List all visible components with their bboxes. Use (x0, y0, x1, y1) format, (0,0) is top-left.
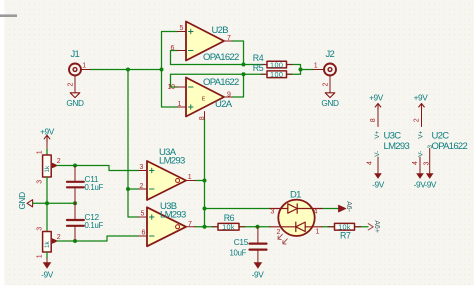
wire R4 node to R4 (244, 64, 268, 66)
svg-text:GND: GND (66, 98, 84, 108)
svg-text:-9V: -9V (424, 179, 437, 189)
svg-text:-9V: -9V (252, 270, 265, 280)
svg-text:10: 10 (168, 84, 176, 91)
wire R5 node to R5 (244, 73, 268, 75)
svg-text:V+: V+ (417, 131, 424, 139)
connector J2 (313, 49, 336, 93)
svg-text:3: 3 (271, 209, 275, 216)
op-amp U2C power unit (OPA1622) (412, 110, 468, 173)
svg-text:100: 100 (270, 70, 283, 79)
op-amp U2A (OPA1622) (168, 77, 240, 120)
svg-text:2: 2 (414, 118, 421, 122)
svg-text:U2B: U2B (212, 25, 229, 36)
wire U3B output (195, 226, 205, 228)
svg-text:OPA1622: OPA1622 (203, 52, 239, 63)
svg-text:+9V: +9V (40, 126, 55, 136)
wire C15 node to D1 pin2 (258, 226, 271, 228)
wire RV1 pin3 down to GND row (46, 177, 48, 203)
svg-text:LM293: LM293 (160, 210, 186, 221)
svg-text:R6: R6 (224, 213, 235, 223)
svg-text:8: 8 (199, 116, 206, 120)
wire vertical to U2B pin5 and U2A pin1 (162, 32, 178, 108)
svg-text:-9V: -9V (41, 270, 54, 280)
wire U3A output (195, 180, 205, 182)
power -9V (U2C pin 3) (424, 173, 437, 189)
svg-text:+9V: +9V (369, 92, 384, 102)
resistor R5 (100) (253, 63, 292, 79)
svg-text:10k: 10k (222, 223, 235, 232)
wire RV2 wiper to junction (57, 240, 75, 242)
label A6- (global, filled arrow) (339, 201, 352, 212)
svg-text:5: 5 (141, 211, 145, 218)
svg-text:3: 3 (423, 162, 430, 166)
wire GND row (33, 202, 75, 204)
resistor R7 (10k) (328, 223, 361, 241)
svg-text:100: 100 (270, 60, 283, 69)
power -9V (U2C pin V-) (414, 173, 427, 189)
svg-text:-9V: -9V (372, 179, 385, 189)
svg-text:J1: J1 (71, 49, 80, 60)
svg-text:R7: R7 (340, 231, 351, 241)
potentiometer RV1 (37, 150, 61, 184)
svg-text:LM293: LM293 (384, 141, 410, 152)
svg-text:LM293: LM293 (159, 155, 185, 166)
svg-text:2: 2 (57, 158, 61, 165)
svg-text:2: 2 (277, 229, 281, 236)
junction node J1 net (126, 68, 130, 72)
svg-text:U2C: U2C (432, 130, 450, 141)
svg-text:7: 7 (188, 221, 192, 228)
junction at U3A pin2 (126, 187, 130, 191)
junction R4 node (242, 63, 246, 67)
svg-text:1: 1 (37, 150, 44, 154)
svg-text:8: 8 (370, 118, 377, 122)
wire U2B output to R4 node (232, 41, 244, 65)
svg-text:J2: J2 (326, 49, 335, 60)
power +9V (U3C) (369, 92, 384, 110)
svg-text:3: 3 (140, 164, 144, 171)
svg-text:10uF: 10uF (230, 248, 247, 257)
power +9V (left) (40, 126, 55, 149)
svg-text:1k: 1k (44, 165, 51, 173)
svg-text:3: 3 (427, 145, 434, 149)
svg-text:C15: C15 (234, 237, 249, 247)
wire D1 pin4 to label A6- (322, 208, 339, 210)
svg-text:R5: R5 (253, 63, 264, 73)
junction C15 node (256, 225, 260, 229)
wire U2A pin8 down to comparator outputs (204, 119, 206, 227)
wire wiper row to U3A pin3 (75, 166, 139, 171)
wire J1 to junction (90, 69, 128, 71)
comparator U3B (LM293) (139, 201, 196, 246)
svg-text:2: 2 (57, 234, 61, 241)
connector J1 (68, 49, 90, 93)
svg-text:V+: V+ (374, 131, 381, 139)
svg-text:A6+: A6+ (373, 220, 380, 232)
wire R7 to label A6+ (355, 226, 369, 228)
wire C12 row to U3B pin6 (75, 236, 139, 241)
svg-text:V-: V- (374, 151, 381, 157)
wire junction to opamp column (128, 69, 162, 71)
wire vertical J1 net down to comparators (128, 70, 139, 218)
wire R4 to J2 column (287, 65, 301, 75)
capacitor C12 (67, 203, 103, 241)
svg-text:5: 5 (180, 25, 184, 32)
wire D1 pin1 to R7 (322, 226, 335, 228)
wire U3A pin2 (128, 188, 139, 190)
junction U3B output / R6 (203, 225, 207, 229)
diode D1 (dual, in package circle) (270, 189, 322, 244)
capacitor C15 (10uF) (230, 227, 267, 262)
svg-text:9: 9 (227, 92, 231, 99)
svg-text:OPA1622: OPA1622 (203, 77, 239, 88)
label A6+ (open arrow) (368, 220, 380, 232)
junction (73, 239, 77, 243)
svg-text:1k: 1k (44, 240, 51, 248)
comparator U3A (LM293) (139, 147, 196, 200)
svg-text:0.1uF: 0.1uF (85, 221, 104, 230)
svg-text:1: 1 (178, 101, 182, 108)
svg-text:1: 1 (314, 63, 318, 70)
svg-text:E: E (202, 97, 206, 103)
ground GND (J2) (321, 93, 339, 108)
ground GND (J1) (66, 93, 84, 108)
wire to J2 pin1 (301, 69, 314, 71)
wire to D1 pin3 (205, 208, 271, 210)
svg-text:6: 6 (142, 230, 146, 237)
resistor R4 (100) (253, 53, 292, 70)
junction (45, 201, 49, 205)
svg-text:2: 2 (140, 183, 144, 190)
svg-text:0.1uF: 0.1uF (85, 183, 104, 192)
potentiometer RV2 (37, 227, 61, 259)
svg-text:1: 1 (188, 174, 192, 181)
power +9V (U2C) (414, 92, 429, 110)
junction U3A output (203, 179, 207, 183)
wire U2B feedback to pin6 (171, 51, 244, 65)
wire R6 left (205, 226, 219, 228)
wire GND row to RV2 pin1 (46, 203, 48, 231)
op-amp U2B (OPA1622) (171, 22, 240, 63)
ground GND (left, rotated) (17, 192, 33, 210)
junction (73, 164, 77, 168)
svg-text:1: 1 (37, 254, 44, 258)
svg-text:1: 1 (82, 63, 86, 70)
svg-text:6: 6 (171, 45, 175, 52)
capacitor C11 (67, 166, 103, 204)
wire R6 right to C15 node (239, 226, 258, 228)
svg-text:4: 4 (412, 161, 419, 165)
svg-text:GND: GND (17, 192, 27, 210)
wire U2A output to R5 node (232, 74, 244, 97)
op-amp U3C power unit (LM293) (366, 110, 409, 173)
svg-text:U2A: U2A (215, 99, 233, 110)
svg-text:2: 2 (323, 83, 330, 87)
junction J2 node (299, 68, 303, 72)
wire RV2 pin3 down (46, 252, 48, 259)
wire R5 to J2 column (287, 73, 301, 75)
svg-text:OPA1622: OPA1622 (432, 141, 468, 152)
svg-text:3: 3 (37, 180, 44, 184)
power -9V (under C15) (252, 262, 265, 279)
svg-text:3: 3 (37, 227, 44, 231)
svg-text:4: 4 (366, 161, 373, 165)
junction R5 node (242, 72, 246, 76)
svg-text:2: 2 (68, 83, 75, 87)
power -9V (U3C) (372, 173, 385, 189)
junction D1 pin3 node (203, 207, 207, 211)
resistor R6 (10k) (212, 213, 245, 232)
svg-text:4: 4 (314, 209, 318, 216)
power -9V (left) (41, 259, 54, 280)
junction (73, 201, 77, 205)
wire +9V to RV1 pin1 (46, 149, 48, 155)
wire RV1 wiper to junction (57, 165, 75, 167)
svg-text:V-: V- (417, 151, 424, 157)
wire U2A feedback to pin10 (171, 74, 244, 87)
svg-text:GND: GND (321, 98, 339, 108)
svg-text:A6-: A6- (345, 201, 352, 212)
svg-text:1: 1 (316, 229, 320, 236)
junction (160, 68, 164, 72)
svg-text:R4: R4 (253, 53, 264, 63)
svg-text:U3C: U3C (384, 130, 402, 141)
svg-text:+9V: +9V (414, 92, 429, 102)
